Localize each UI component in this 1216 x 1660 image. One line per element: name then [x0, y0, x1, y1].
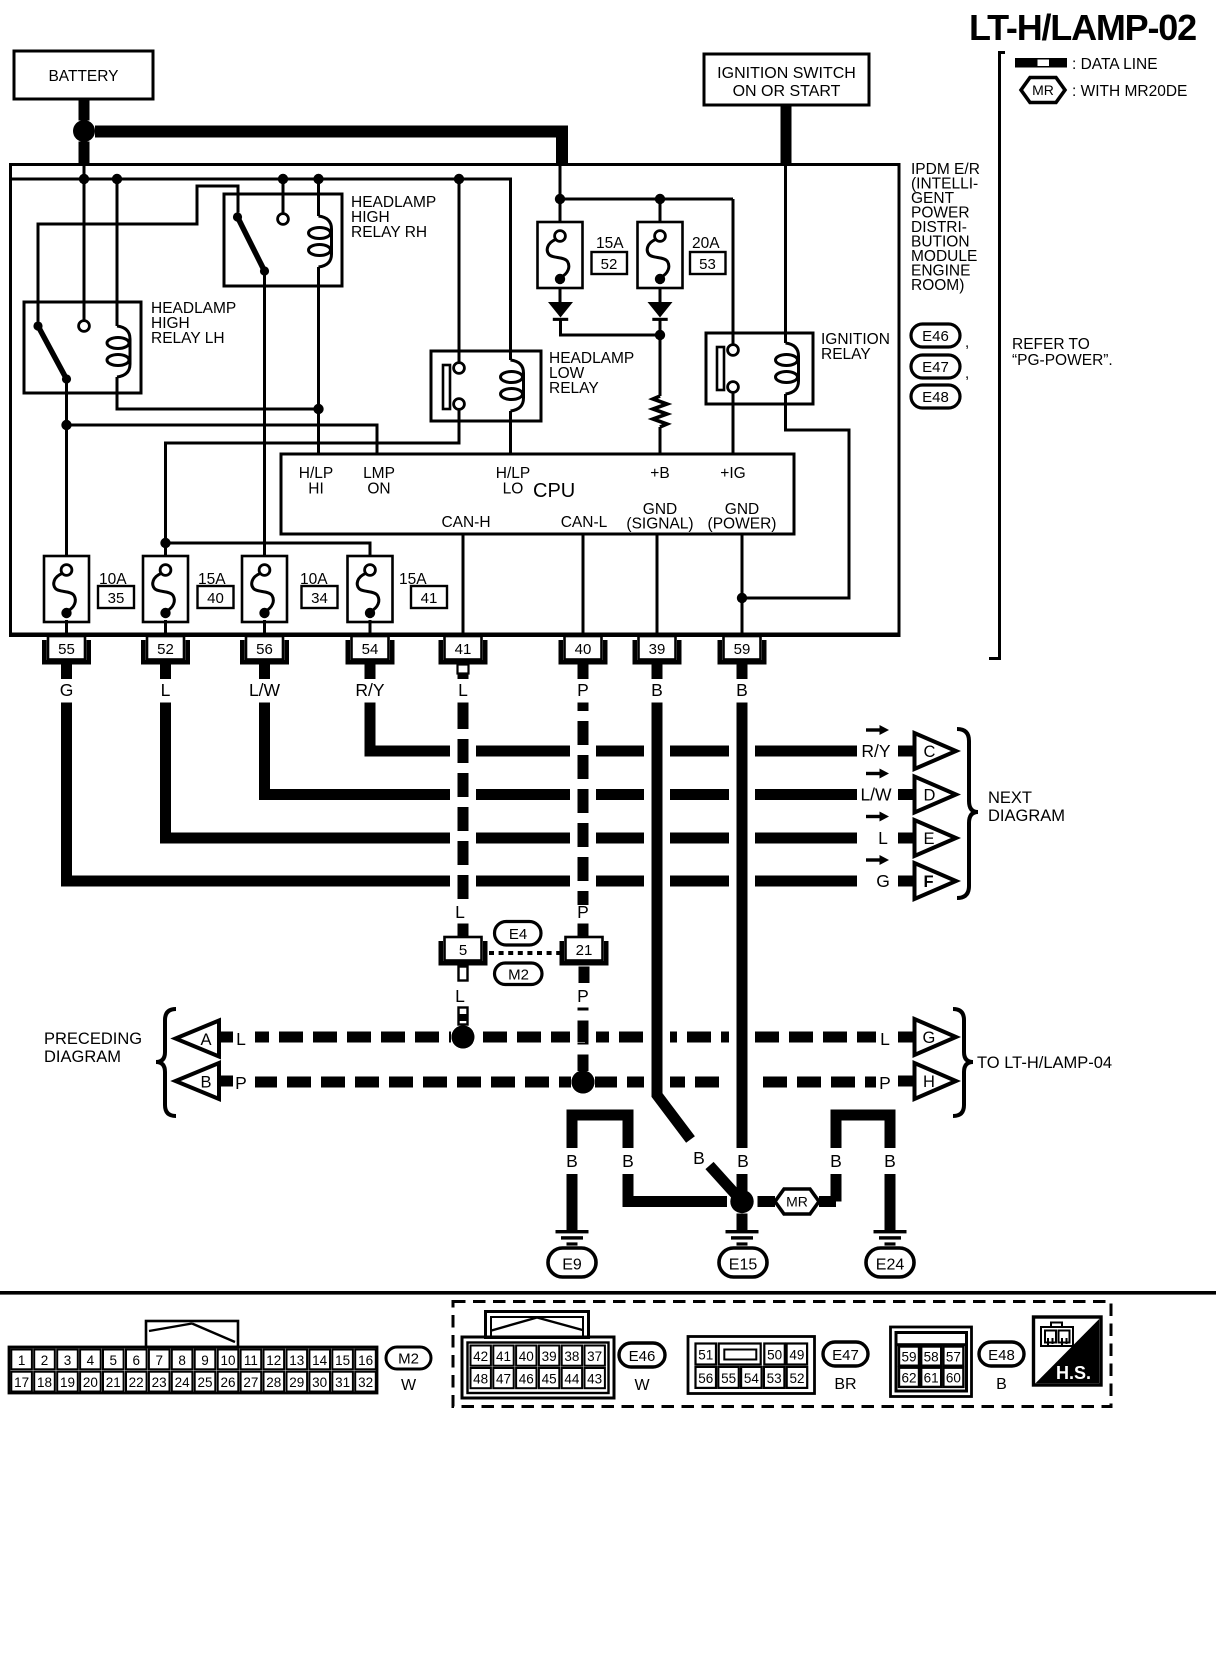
- wire fuse 53 diode: [659, 288, 662, 304]
- svg-text:R/Y: R/Y: [355, 680, 385, 700]
- redraw junction dots over white dashes: [452, 1026, 475, 1049]
- battery thick feed wire to right: [95, 132, 562, 164]
- svg-text:C: C: [924, 743, 936, 761]
- svg-text:61: 61: [924, 1371, 939, 1386]
- E46 connector table: [462, 1312, 614, 1399]
- connector oval E48: [911, 385, 960, 408]
- svg-text:NEXT: NEXT: [988, 789, 1032, 807]
- svg-text:28: 28: [266, 1375, 281, 1390]
- wire fuse 52 diode: [559, 288, 562, 304]
- svg-text:16: 16: [358, 1353, 373, 1368]
- svg-text:DIAGRAM: DIAGRAM: [44, 1048, 121, 1066]
- legend data line swatch: [1015, 56, 1158, 73]
- svg-text:H: H: [923, 1073, 935, 1091]
- connector oval E24: [866, 1248, 914, 1277]
- connector 52: [141, 636, 190, 679]
- svg-text:+B: +B: [650, 465, 669, 482]
- ignition switch box: [704, 54, 869, 105]
- node RH coil feed: [313, 174, 323, 184]
- svg-text:22: 22: [129, 1375, 144, 1390]
- svg-text:,: ,: [965, 365, 969, 382]
- svg-text:E: E: [924, 830, 935, 848]
- connector 39: [633, 636, 682, 679]
- svg-text:H/LP: H/LP: [299, 465, 333, 482]
- svg-text:P: P: [577, 986, 589, 1006]
- wire junction to ground: [737, 1214, 748, 1231]
- node line B at fuse 52: [555, 194, 565, 204]
- triangle H: [915, 1063, 957, 1099]
- fuse 20A 53: [638, 222, 726, 288]
- wire diode 53 down: [659, 320, 662, 396]
- relay headlamp high RH: [224, 194, 436, 286]
- svg-text:“PG-POWER”.: “PG-POWER”.: [1012, 352, 1113, 369]
- connector 5: [439, 937, 488, 966]
- connector 40: [559, 636, 608, 679]
- brace to lamp04: [953, 1009, 973, 1116]
- wire row F segments: [61, 876, 857, 887]
- svg-text:RELAY LH: RELAY LH: [151, 330, 225, 347]
- svg-text:57: 57: [946, 1350, 961, 1365]
- svg-text:E46: E46: [922, 328, 949, 345]
- svg-text:IGNITION SWITCH: IGNITION SWITCH: [717, 65, 856, 82]
- node low beam fuse branch: [160, 538, 170, 548]
- svg-text:ON: ON: [367, 481, 390, 498]
- wire GND SIGNAL to connector 39: [656, 534, 659, 634]
- svg-text:LO: LO: [503, 481, 524, 498]
- separator line: [0, 1291, 1216, 1295]
- arrows above rows: [866, 725, 889, 735]
- wire bus to LOW contact: [458, 179, 461, 363]
- wire bus A horizontal: [11, 179, 511, 360]
- svg-text:L: L: [236, 1029, 246, 1049]
- svg-text:G: G: [923, 1029, 936, 1047]
- svg-text:40: 40: [519, 1349, 534, 1364]
- relay headlamp high LH: [24, 300, 236, 393]
- connector 41: [439, 636, 488, 679]
- connector 54: [346, 636, 395, 679]
- MR hexagon badge: [775, 1189, 819, 1214]
- svg-text:P: P: [235, 1073, 247, 1093]
- junction dot row A: [452, 1026, 475, 1049]
- svg-text:: WITH MR20DE: : WITH MR20DE: [1072, 83, 1187, 100]
- wire battery down to LH relay contact: [83, 163, 86, 321]
- data line P vertical upper: [578, 703, 589, 906]
- svg-text:41: 41: [455, 641, 472, 658]
- svg-text:58: 58: [924, 1350, 939, 1365]
- svg-text:H/LP: H/LP: [496, 465, 530, 482]
- svg-text:44: 44: [564, 1372, 580, 1387]
- wire fuse feed line B: [560, 163, 733, 345]
- svg-text:3: 3: [64, 1353, 72, 1368]
- wire to ground E24: [885, 1174, 896, 1230]
- wire ignition switch to relay coil: [784, 163, 787, 343]
- svg-text:DIAGRAM: DIAGRAM: [988, 807, 1065, 825]
- svg-text:35: 35: [108, 590, 125, 607]
- node GND POWER / ignition coil: [737, 593, 747, 603]
- svg-text:L/W: L/W: [249, 680, 281, 700]
- svg-text:15A: 15A: [596, 235, 624, 252]
- wire LH coil out: [117, 377, 319, 409]
- dashed link E4/M2: [489, 951, 566, 955]
- wire bus to RH coil: [317, 179, 320, 216]
- svg-text:10: 10: [220, 1353, 235, 1368]
- connector table M2: [9, 1347, 377, 1393]
- svg-text:34: 34: [311, 590, 328, 607]
- dashed detail box: [453, 1302, 1111, 1407]
- svg-text:55: 55: [58, 641, 75, 658]
- brace next diagram: [957, 729, 978, 898]
- svg-text:40: 40: [207, 590, 224, 607]
- node LOW contact feed: [454, 174, 464, 184]
- connector oval E9: [548, 1248, 596, 1277]
- svg-text:52: 52: [789, 1371, 804, 1386]
- svg-text:(SIGNAL): (SIGNAL): [626, 516, 693, 533]
- svg-text:W: W: [634, 1377, 650, 1394]
- svg-text:37: 37: [587, 1349, 602, 1364]
- data line L vertical upper: [458, 703, 469, 906]
- svg-text:L: L: [455, 902, 465, 922]
- svg-text:B: B: [830, 1151, 842, 1171]
- svg-text:51: 51: [698, 1348, 713, 1363]
- svg-text:26: 26: [220, 1375, 235, 1390]
- svg-text:30: 30: [312, 1375, 327, 1390]
- svg-text:23: 23: [152, 1375, 167, 1390]
- svg-text:E4: E4: [509, 926, 527, 943]
- node LH coil feed: [112, 174, 122, 184]
- svg-text:B: B: [996, 1376, 1007, 1393]
- node battery on bus A: [79, 174, 89, 184]
- svg-text:42: 42: [473, 1349, 488, 1364]
- svg-text:CAN-H: CAN-H: [441, 514, 490, 531]
- ground E24: [874, 1230, 907, 1246]
- svg-text:45: 45: [542, 1372, 557, 1387]
- svg-text:E48: E48: [988, 1347, 1015, 1364]
- wire bus to LH coil: [116, 179, 119, 326]
- svg-text:ROOM): ROOM): [911, 277, 964, 294]
- wire resistor to CPU +B: [659, 427, 662, 454]
- svg-text:PRECEDING: PRECEDING: [44, 1030, 142, 1048]
- svg-text:L: L: [458, 680, 468, 700]
- wire fuse 56 to edge: [263, 620, 266, 634]
- svg-text:48: 48: [473, 1372, 488, 1387]
- stubs after triangles: [219, 1032, 233, 1043]
- svg-text:32: 32: [358, 1375, 373, 1390]
- connector oval E47: [823, 1342, 868, 1393]
- ground E15: [726, 1230, 759, 1246]
- wire B diagonal lower: [710, 1166, 743, 1202]
- svg-text:56: 56: [256, 641, 273, 658]
- ignition switch thick wire: [781, 104, 792, 163]
- svg-text:E46: E46: [629, 1348, 656, 1365]
- junction dot row B: [572, 1071, 595, 1094]
- row A dashed: [255, 1032, 876, 1043]
- node RH contact feed: [278, 174, 288, 184]
- svg-text:50: 50: [767, 1348, 782, 1363]
- connector 55: [42, 636, 91, 679]
- data line L open segment to junction: [459, 1008, 468, 1025]
- svg-text:53: 53: [699, 256, 716, 273]
- bracket right side: [989, 53, 1005, 659]
- svg-text:17: 17: [14, 1375, 29, 1390]
- triangle B: [176, 1063, 220, 1099]
- wire junction to MR: [758, 1196, 776, 1207]
- row stubs: [898, 746, 914, 757]
- svg-text:55: 55: [721, 1371, 736, 1386]
- svg-text:B: B: [693, 1148, 705, 1168]
- svg-text:R/Y: R/Y: [861, 741, 891, 761]
- IPDM label column: [911, 161, 980, 294]
- fuse 10A 35: [44, 556, 134, 622]
- M2 connector table: [9, 1347, 377, 1393]
- svg-text:LMP: LMP: [363, 465, 395, 482]
- data line L open stub below: [459, 967, 468, 981]
- svg-text:B: B: [737, 1151, 749, 1171]
- svg-text:24: 24: [175, 1375, 191, 1390]
- svg-text:59: 59: [734, 641, 751, 658]
- svg-text:13: 13: [289, 1353, 304, 1368]
- svg-text:: DATA LINE: : DATA LINE: [1072, 56, 1158, 73]
- svg-text:6: 6: [132, 1353, 140, 1368]
- svg-text:49: 49: [789, 1348, 804, 1363]
- relay ignition: [706, 331, 890, 404]
- svg-text:W: W: [401, 1377, 417, 1394]
- svg-text:B: B: [566, 1151, 578, 1171]
- node H/LP HI join: [313, 404, 323, 414]
- svg-text:54: 54: [362, 641, 379, 658]
- wire LOW coil to CPU: [509, 411, 512, 454]
- note refer to PG-POWER: [1012, 336, 1113, 369]
- connector oval E46: [911, 324, 969, 351]
- triangle G: [915, 1019, 957, 1055]
- svg-text:E48: E48: [922, 389, 949, 406]
- connector oval M2: [495, 963, 543, 985]
- svg-text:60: 60: [946, 1371, 961, 1386]
- stubs before right triangles: [898, 1032, 914, 1043]
- svg-text:14: 14: [312, 1353, 328, 1368]
- E48 connector table: [891, 1327, 972, 1397]
- connector oval M2: [386, 1347, 431, 1394]
- svg-text:RELAY: RELAY: [821, 346, 871, 363]
- svg-text:43: 43: [587, 1372, 602, 1387]
- svg-text:P: P: [879, 1073, 891, 1093]
- svg-text:,: ,: [965, 334, 969, 351]
- svg-text:E47: E47: [922, 359, 949, 376]
- svg-text:15: 15: [335, 1353, 350, 1368]
- H.S. badge: [1034, 1317, 1102, 1385]
- svg-text:2: 2: [41, 1353, 49, 1368]
- E47 connector table: [688, 1337, 815, 1394]
- svg-text:53: 53: [767, 1371, 782, 1386]
- fuse 10A 34: [242, 556, 338, 622]
- svg-text:L: L: [455, 986, 465, 1006]
- svg-text:8: 8: [178, 1353, 186, 1368]
- svg-text:19: 19: [60, 1375, 75, 1390]
- svg-text:4: 4: [87, 1353, 95, 1368]
- wire L/W vertical: [259, 703, 270, 795]
- svg-text:39: 39: [649, 641, 666, 658]
- data line P stub below: [579, 967, 590, 984]
- wire R/Y vertical: [365, 703, 376, 752]
- svg-text:CPU: CPU: [533, 480, 575, 502]
- row labels: [860, 741, 892, 891]
- battery thick wire stub: [79, 99, 90, 121]
- wire LMP ON: [67, 425, 378, 454]
- triangle C: [915, 733, 957, 769]
- wire row C segments: [365, 746, 858, 757]
- svg-text:21: 21: [576, 942, 593, 959]
- wire RH coil out: [317, 267, 320, 454]
- svg-text:5: 5: [110, 1353, 118, 1368]
- connector oval E15: [719, 1248, 767, 1277]
- fuse 15A 41: [348, 556, 448, 622]
- svg-text:B: B: [651, 680, 663, 700]
- svg-text:54: 54: [744, 1371, 760, 1386]
- junction dot E15: [730, 1190, 753, 1213]
- svg-text:E47: E47: [832, 1347, 859, 1364]
- diode under fuse 53: [648, 302, 673, 321]
- svg-text:40: 40: [575, 641, 592, 658]
- data line L stub above connector 5: [458, 924, 469, 938]
- E24 loop top bar: [836, 1115, 890, 1148]
- battery junction dot: [73, 120, 95, 142]
- wire ignition coil to GND POWER node: [742, 394, 849, 598]
- wire CAN-H to connector 41: [462, 534, 465, 634]
- wire MR to E24 loop: [819, 1196, 836, 1207]
- wire E9 loop to junction: [628, 1174, 727, 1202]
- svg-text:P: P: [577, 680, 589, 700]
- connector 59: [718, 636, 767, 679]
- wire branch to fuse 54: [166, 543, 371, 562]
- svg-text:TO LT-H/LAMP-04: TO LT-H/LAMP-04: [977, 1054, 1112, 1072]
- diode under fuse 52: [548, 302, 573, 321]
- triangle A: [176, 1021, 220, 1057]
- svg-text:41: 41: [496, 1349, 511, 1364]
- svg-text:B: B: [200, 1074, 211, 1092]
- wire E24 left to MR: [831, 1174, 842, 1202]
- svg-text:20: 20: [83, 1375, 98, 1390]
- triangle F: [915, 863, 957, 899]
- ground E9: [556, 1230, 589, 1246]
- svg-text:G: G: [60, 680, 74, 700]
- svg-text:59: 59: [901, 1350, 916, 1365]
- connector oval E48: [979, 1342, 1024, 1393]
- wire linking LH and RH switch contacts: [38, 186, 238, 322]
- svg-text:31: 31: [335, 1375, 350, 1390]
- svg-text:27: 27: [243, 1375, 258, 1390]
- svg-text:62: 62: [901, 1371, 916, 1386]
- wire diode 52 to +B node: [561, 320, 661, 335]
- svg-text:56: 56: [698, 1371, 713, 1386]
- svg-text:M2: M2: [508, 967, 529, 984]
- battery thick wire into IPDM: [79, 142, 90, 164]
- triangle D: [915, 777, 957, 813]
- node LMP ON branch: [61, 420, 71, 430]
- svg-text:M2: M2: [398, 1351, 419, 1368]
- wire ignition contact to CPU +IG: [732, 393, 735, 455]
- svg-text:1: 1: [18, 1353, 26, 1368]
- connector oval E4: [495, 922, 542, 946]
- relay headlamp low: [431, 350, 634, 421]
- wire B from connector 59: [737, 703, 748, 1149]
- svg-text:RELAY: RELAY: [549, 380, 599, 397]
- svg-text:BR: BR: [834, 1376, 856, 1393]
- connector 21: [560, 937, 609, 966]
- wire fuse 54 to edge: [369, 620, 372, 634]
- svg-text:11: 11: [244, 1353, 258, 1368]
- svg-text:41: 41: [421, 590, 438, 607]
- battery box: [14, 51, 153, 99]
- svg-text:BATTERY: BATTERY: [48, 68, 118, 85]
- fuse 15A 40: [143, 556, 234, 622]
- connector table E46: [462, 1337, 614, 1398]
- svg-text:52: 52: [157, 641, 174, 658]
- svg-text:B: B: [884, 1151, 896, 1171]
- connector table E48: [891, 1327, 972, 1397]
- svg-text:21: 21: [106, 1375, 121, 1390]
- legend MR hexagon: [1021, 78, 1187, 103]
- brace preceding diagram: [156, 1009, 176, 1116]
- IPDM E/R box: [11, 165, 900, 635]
- IPDM box bottom thick edge: [9, 633, 901, 638]
- svg-text:D: D: [924, 787, 936, 805]
- svg-text:L: L: [880, 1029, 890, 1049]
- wire CAN-L to connector 40: [582, 534, 585, 634]
- wire fuse 55 to edge: [65, 620, 68, 634]
- data line P stub above connector 21: [578, 924, 589, 938]
- connector 56: [240, 636, 289, 679]
- wire GND POWER to connector 59: [741, 534, 744, 634]
- svg-text:18: 18: [37, 1375, 52, 1390]
- svg-text:39: 39: [542, 1349, 557, 1364]
- svg-text:L: L: [878, 828, 888, 848]
- wire RH switch out to fuse 56: [263, 275, 266, 562]
- row B dashed: [255, 1077, 876, 1088]
- data line P crossing row A repaint: [578, 1026, 589, 1042]
- connector oval E46: [619, 1343, 665, 1394]
- wire LOW contact out: [166, 410, 460, 563]
- E9 loop top bar: [572, 1115, 628, 1148]
- wire color labels: [60, 680, 748, 700]
- M2 tab: [146, 1321, 238, 1347]
- wire G vertical: [61, 703, 72, 882]
- svg-text:E9: E9: [562, 1257, 582, 1274]
- node line B at fuse 53: [655, 194, 665, 204]
- svg-text:B: B: [622, 1151, 634, 1171]
- svg-text:H.S.: H.S.: [1056, 1363, 1091, 1383]
- wire B from connector 39: [657, 703, 691, 1140]
- svg-text:CAN-L: CAN-L: [561, 514, 608, 531]
- svg-text:LT-H/LAMP-02: LT-H/LAMP-02: [969, 7, 1196, 48]
- svg-text:5: 5: [459, 942, 467, 959]
- svg-text:20A: 20A: [692, 235, 720, 252]
- svg-text:A: A: [200, 1031, 211, 1049]
- CPU box: [281, 454, 794, 534]
- svg-text:REFER TO: REFER TO: [1012, 336, 1090, 353]
- svg-text:G: G: [876, 871, 890, 891]
- svg-text:46: 46: [519, 1372, 534, 1387]
- wire row E segments: [160, 833, 857, 844]
- fuse 15A 52: [538, 222, 628, 288]
- svg-text:P: P: [577, 902, 589, 922]
- wire fuse 52b to edge: [164, 620, 167, 634]
- wire B to junction: [737, 1174, 748, 1192]
- connector oval E47: [911, 355, 969, 382]
- svg-text:29: 29: [289, 1375, 304, 1390]
- svg-text:7: 7: [155, 1353, 163, 1368]
- connector table E47: [688, 1337, 815, 1394]
- svg-text:B: B: [736, 680, 748, 700]
- svg-text:(POWER): (POWER): [708, 516, 777, 533]
